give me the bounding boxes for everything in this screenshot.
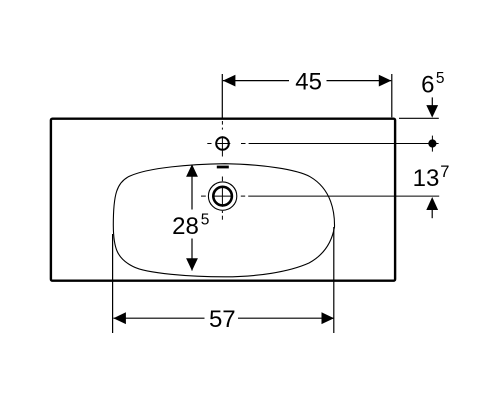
dim 28.5 arrow down	[186, 258, 198, 271]
washbasin outer rectangle	[51, 119, 395, 281]
dim 57 extension line right	[333, 227, 335, 333]
tap hole circle	[216, 137, 229, 150]
svg-text:6: 6	[421, 72, 434, 99]
top edge extension line right	[399, 117, 439, 119]
svg-text:7: 7	[440, 163, 449, 181]
tap hole horizontal centerline	[207, 143, 438, 145]
dim 45 arrow left	[223, 75, 236, 87]
dim 13.7 arrow up	[426, 197, 438, 210]
dim 57 arrow right	[322, 312, 335, 324]
tap hole vertical centerline	[221, 121, 223, 157]
drain outer circle	[208, 182, 236, 210]
basin inner outline	[113, 164, 334, 277]
dim 45 extension line left	[221, 74, 223, 118]
dim 28.5 arrow up	[186, 164, 198, 177]
drain vertical centerline	[221, 177, 223, 220]
dim 6.5 arrow down	[426, 105, 438, 118]
dim 57 line	[113, 317, 334, 319]
dim 45 arrow right	[379, 75, 392, 87]
svg-text:5: 5	[201, 211, 210, 228]
dim 28.5 line	[191, 165, 193, 271]
dim 57 extension line left	[112, 234, 114, 333]
svg-text:5: 5	[436, 70, 445, 87]
dim 13.7 arrow stem	[431, 208, 433, 218]
drain horizontal centerline	[201, 195, 439, 197]
dim 45 extension line right	[391, 74, 393, 117]
dim 57 arrow left	[113, 312, 126, 324]
reference dot on tap centerline	[431, 136, 433, 152]
dim 45 line	[223, 80, 391, 82]
dim 6.5 arrow stem	[431, 97, 433, 110]
svg-text:45: 45	[295, 68, 322, 95]
svg-text:28: 28	[172, 213, 199, 240]
svg-text:57: 57	[209, 306, 236, 333]
overflow slot mark	[217, 166, 229, 169]
svg-text:13: 13	[413, 165, 440, 192]
drain inner circle	[213, 187, 232, 206]
